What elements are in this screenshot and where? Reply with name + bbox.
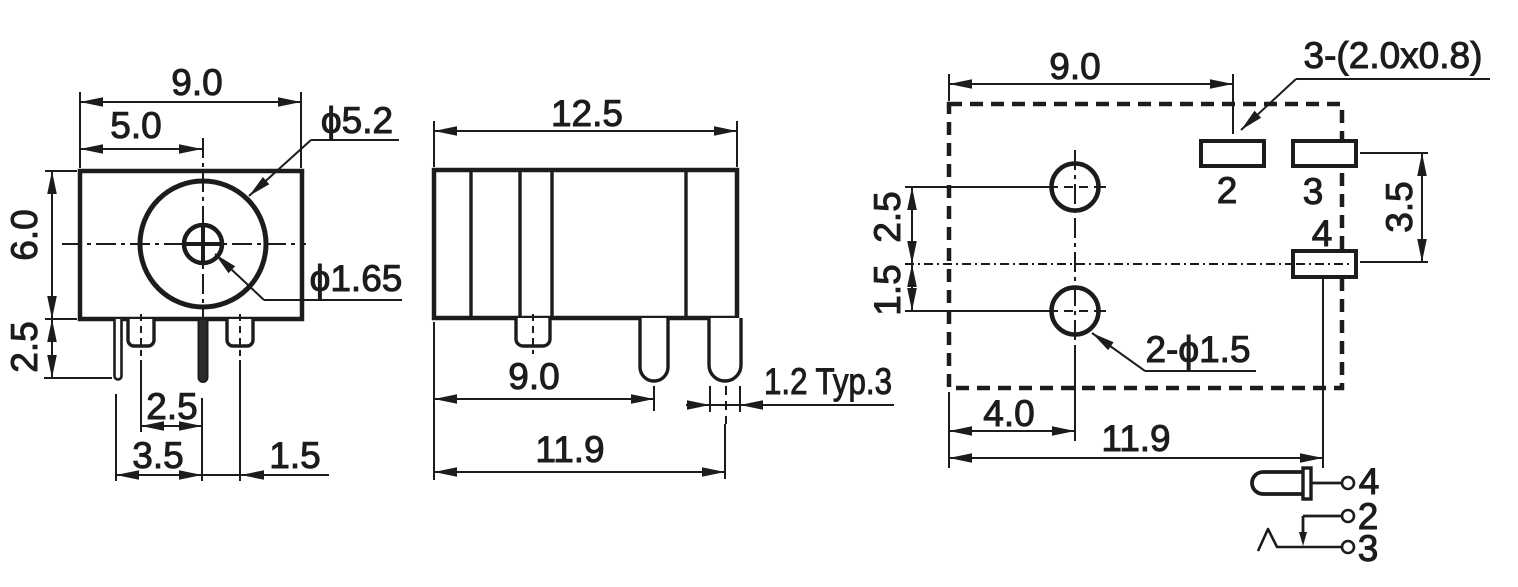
svg-text:2.5: 2.5: [4, 321, 45, 372]
dim 9.0 pcb: [948, 74, 950, 101]
dim 11.9 pcb: [1322, 279, 1324, 468]
ext through lower hole: [905, 310, 1049, 312]
side lug: [516, 318, 550, 346]
bushing circle d5.2: [140, 181, 266, 307]
svg-text:3: 3: [1358, 528, 1379, 569]
side view inner line 1: [469, 172, 472, 316]
svg-text:ϕ1.65: ϕ1.65: [310, 258, 403, 299]
svg-text:9.0: 9.0: [1049, 46, 1100, 87]
side view inner line 2: [518, 172, 521, 316]
pcb horizontal centerline: [905, 263, 1355, 265]
side pin A: [640, 318, 668, 381]
svg-text:11.9: 11.9: [1101, 418, 1170, 459]
label 2-phi1.5 leader: [1092, 333, 1145, 371]
dim 11.9 side: [725, 386, 727, 424]
side view inner line 3: [550, 172, 553, 316]
dim 6.0 front height: [45, 170, 77, 172]
svg-text:2.5: 2.5: [146, 386, 197, 427]
svg-text:3-(2.0x0.8): 3-(2.0x0.8): [1304, 35, 1483, 76]
front left lug centerline: [140, 314, 142, 356]
dim 2.5 pin length: [44, 377, 112, 379]
dim 9.0 side: [433, 322, 435, 480]
svg-text:12.5: 12.5: [551, 93, 623, 134]
dim 3.5 and 1.5 pin spacing: [115, 394, 117, 481]
pad 4: [1293, 251, 1356, 277]
pcb outline dashed: [949, 104, 1342, 388]
svg-text:9.0: 9.0: [171, 62, 222, 103]
front view horizontal centerline: [62, 243, 306, 245]
front right lug: [227, 319, 253, 346]
svg-text:4: 4: [1312, 213, 1333, 254]
svg-text:2: 2: [1217, 170, 1238, 211]
pcb hole vertical centerline: [1074, 150, 1076, 345]
svg-text:ϕ5.2: ϕ5.2: [321, 100, 393, 141]
svg-text:1.5: 1.5: [867, 264, 908, 315]
label 3-(2.0x0.8) leader: [1296, 78, 1490, 80]
dim 2.5 pin spacing: [140, 360, 142, 432]
svg-text:2-ϕ1.5: 2-ϕ1.5: [1145, 329, 1250, 370]
pad 2: [1201, 141, 1264, 166]
jack symbol barrel pin 4: [1252, 472, 1304, 494]
side view body: [434, 170, 737, 318]
ext through upper hole: [905, 186, 1049, 188]
side lug centerline: [532, 314, 534, 354]
svg-text:1.2 Typ.3: 1.2 Typ.3: [764, 361, 892, 402]
terminal circle 2: [1342, 510, 1354, 522]
front left terminal pin: [115, 319, 122, 380]
hole 1 upper d1.5: [1052, 164, 1099, 211]
wire pin 4: [1311, 482, 1342, 485]
front right lug centerline: [239, 314, 241, 356]
svg-text:6.0: 6.0: [4, 209, 45, 260]
svg-text:1.5: 1.5: [269, 435, 320, 476]
center pin cross: [182, 242, 224, 246]
terminal circle 3: [1342, 541, 1354, 553]
svg-text:11.9: 11.9: [535, 429, 604, 470]
dim 3.5 pad offset: [1360, 152, 1428, 154]
side view inner line 4: [684, 172, 687, 316]
label phi 5.2 leader: [311, 139, 399, 141]
hole 2 lower d1.5: [1052, 288, 1099, 335]
svg-text:4.0: 4.0: [983, 393, 1034, 434]
svg-text:5.0: 5.0: [110, 105, 161, 146]
dim 2.5 hole offset: [911, 187, 913, 264]
svg-text:3.5: 3.5: [1379, 181, 1420, 232]
front center pin (dark): [199, 319, 208, 382]
terminal circle 4: [1342, 477, 1354, 489]
pad 3: [1293, 141, 1356, 166]
front view body: [80, 171, 302, 319]
dim 5.0 front: [80, 148, 202, 150]
front left lug: [128, 319, 154, 346]
svg-text:9.0: 9.0: [508, 356, 559, 397]
dim 4.0 pcb: [948, 392, 950, 468]
dim 1.2 Typ.3 pin width: [709, 386, 711, 412]
pad 4 centerline dashes: [1296, 263, 1352, 265]
switch actuator arrow: [1302, 516, 1305, 534]
side pin B: [709, 318, 741, 381]
wire pin 2: [1303, 515, 1342, 518]
dim 1.5 hole offset: [911, 264, 913, 311]
svg-text:2.5: 2.5: [867, 191, 908, 242]
svg-text:3.5: 3.5: [132, 435, 183, 476]
jack symbol sleeve bar: [1303, 468, 1311, 499]
label phi 1.65 leader: [215, 254, 264, 300]
center pin hole d1.65: [184, 225, 222, 263]
dim 12.5 side width: [433, 121, 435, 167]
svg-text:3: 3: [1303, 171, 1324, 212]
front view vertical centerline: [202, 138, 204, 318]
dim 9.0 front width: [79, 92, 81, 168]
wire pin 3 with spring contact: [1258, 529, 1342, 551]
